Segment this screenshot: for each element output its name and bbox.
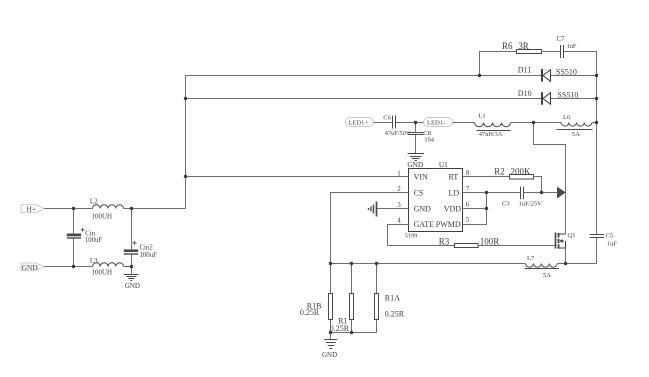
inductor L7 — [526, 264, 558, 268]
wire pin5 PWMD stub and tie — [463, 193, 487, 225]
node R6 D11 — [478, 74, 481, 77]
svg-text:1uF/25V: 1uF/25V — [519, 201, 543, 208]
wire C6 to LED1- — [396, 122, 424, 124]
capacitor C8 — [408, 133, 424, 135]
svg-text:1: 1 — [397, 170, 401, 178]
wire R2 to drop — [534, 177, 542, 193]
svg-text:8: 8 — [466, 169, 470, 177]
node C6 C8 — [414, 121, 417, 124]
wire L7 to right corner — [557, 263, 596, 265]
inductor L2 — [93, 205, 124, 209]
wire trunk left vertical — [185, 76, 187, 209]
wire C7 to right corner — [564, 52, 597, 76]
node trunk VIN — [184, 175, 187, 178]
wire L6 to right rail — [592, 122, 597, 124]
svg-text:R2: R2 — [494, 166, 505, 176]
wire L3 to Cin2 node — [124, 266, 132, 268]
svg-text:200K: 200K — [511, 166, 532, 176]
node right L6 — [595, 121, 598, 124]
wire D11 to right rail — [551, 75, 597, 77]
svg-text:GND: GND — [22, 263, 39, 272]
IC U1 box — [409, 169, 463, 232]
svg-text:0.25R: 0.25R — [300, 308, 320, 317]
svg-text:47uH/3A: 47uH/3A — [479, 131, 503, 138]
svg-text:L3: L3 — [90, 257, 98, 265]
svg-text:3R: 3R — [518, 41, 529, 51]
resistor R1A — [375, 294, 379, 320]
svg-text:1nF: 1nF — [567, 43, 577, 50]
svg-text:CS: CS — [414, 189, 424, 198]
svg-text:L6: L6 — [563, 114, 571, 121]
node trunk D10 — [184, 97, 187, 100]
ground below Cin2 — [124, 275, 139, 281]
wire D11 rail — [186, 75, 542, 77]
svg-text:PWMD: PWMD — [436, 220, 461, 229]
arrow connector to drain line — [557, 187, 565, 197]
svg-text:100UH: 100UH — [92, 212, 113, 220]
wire pin1 VIN row — [186, 176, 409, 178]
node bottom R1B — [329, 331, 332, 334]
svg-text:6: 6 — [466, 200, 470, 208]
node right D10 — [595, 97, 598, 100]
capacitor C7 — [561, 45, 564, 58]
svg-text:LED1-: LED1- — [427, 119, 445, 126]
capacitor C3 — [521, 187, 524, 200]
svg-text:100uF: 100uF — [140, 252, 158, 259]
svg-text:R6: R6 — [502, 41, 513, 51]
wire pin6 VDD stub — [463, 208, 487, 210]
svg-text:5: 5 — [466, 216, 470, 224]
svg-text:4: 4 — [397, 217, 401, 225]
ground below C8 — [408, 154, 425, 161]
svg-text:100R: 100R — [480, 236, 500, 246]
ground below R1B — [324, 340, 337, 349]
ground rotated at pin3 — [369, 202, 377, 217]
wire pin3 GND stub — [377, 208, 409, 210]
node rail R1 — [350, 262, 353, 265]
node LED1+ — [346, 118, 374, 127]
svg-text:D11: D11 — [518, 66, 531, 75]
node source rail — [564, 262, 567, 265]
svg-text:5199: 5199 — [405, 233, 418, 240]
svg-text:0.25R: 0.25R — [385, 310, 405, 319]
wire L2 to trunk — [124, 208, 186, 210]
capacitor Cin2 — [124, 241, 138, 254]
svg-text:C3: C3 — [502, 201, 510, 208]
svg-text:RT: RT — [449, 173, 459, 182]
wire C8 branch — [415, 123, 417, 154]
capacitor C5 — [590, 235, 605, 238]
svg-text:100UH: 100UH — [92, 269, 113, 277]
svg-text:0.25R: 0.25R — [330, 324, 350, 333]
node H+/Cin — [72, 207, 75, 210]
wire Cin branch — [73, 209, 75, 267]
resistor R6 — [517, 50, 542, 54]
svg-text:H+: H+ — [27, 205, 37, 214]
wire pin4 GATE drop — [388, 225, 455, 246]
wire R3 to gate — [478, 245, 556, 247]
wire R6 branch up — [480, 52, 517, 76]
wire GND row — [44, 266, 92, 268]
wire D10 to right rail — [551, 98, 597, 100]
node bottom R1 — [350, 331, 353, 334]
capacitor Cin — [67, 228, 85, 238]
resistor R2 — [510, 175, 534, 180]
wire pin7 LD row — [463, 192, 521, 194]
wire C3 to arrow node — [524, 192, 558, 194]
wire resistor bottoms — [331, 332, 377, 334]
node LED1- — [424, 118, 453, 127]
wire LED1- to L1 — [453, 122, 475, 124]
svg-text:R1A: R1A — [385, 293, 400, 302]
svg-text:U1: U1 — [439, 160, 448, 169]
inductor L3 — [93, 263, 124, 267]
wire R1B column — [330, 264, 332, 340]
node L2/Cin2 — [130, 207, 133, 210]
svg-text:D10: D10 — [518, 89, 532, 98]
node right D11 — [595, 74, 598, 77]
svg-text:2: 2 — [397, 185, 401, 193]
wire R1 column — [351, 264, 353, 333]
svg-text:VIN: VIN — [414, 173, 428, 182]
svg-text:5A: 5A — [543, 272, 551, 279]
node VDD tie — [485, 207, 488, 210]
port H+ — [21, 205, 44, 213]
svg-text:SS510: SS510 — [556, 67, 577, 76]
wire R1A column — [376, 264, 378, 333]
inductor L1 — [475, 123, 511, 127]
wire Cin2 branch — [131, 209, 133, 267]
node L1 drain — [532, 121, 535, 124]
svg-text:L1: L1 — [478, 112, 485, 119]
svg-text:100uF: 100uF — [85, 237, 103, 244]
wire right rail vertical — [596, 76, 598, 264]
svg-text:104: 104 — [424, 137, 435, 144]
wire D10 rail — [186, 98, 542, 100]
svg-text:GATE: GATE — [414, 220, 435, 229]
svg-text:LED1+: LED1+ — [348, 119, 368, 126]
wire R6 to C7 — [542, 51, 561, 53]
diode D11 — [542, 69, 551, 82]
node LD tie — [485, 191, 488, 194]
capacitor C6 — [393, 116, 396, 129]
svg-text:Cin2: Cin2 — [140, 244, 154, 251]
diode D10 — [542, 92, 551, 105]
wire Q1 source to rail — [565, 248, 567, 264]
wire bottom rail — [331, 263, 526, 265]
inductor L6 — [561, 123, 592, 127]
svg-text:VDD: VDD — [444, 204, 462, 213]
port GND — [21, 263, 44, 271]
wire ground stem Cin2 — [131, 267, 133, 275]
svg-text:1uF: 1uF — [607, 241, 618, 248]
svg-text:C6: C6 — [383, 114, 391, 121]
node rail R1A — [375, 262, 378, 265]
wire LED1+ to C6 — [374, 122, 393, 124]
transistor Q1 — [556, 233, 566, 249]
svg-text:3: 3 — [397, 201, 401, 209]
svg-text:GND: GND — [125, 282, 140, 290]
svg-text:47uF/50V: 47uF/50V — [385, 130, 411, 137]
svg-text:5A: 5A — [572, 131, 580, 138]
node GND/Cin — [72, 265, 75, 268]
wire H+ row — [44, 208, 92, 210]
resistor R1 — [350, 294, 354, 320]
node rail R1B — [329, 262, 332, 265]
svg-text:GND: GND — [322, 351, 337, 359]
resistor R3 — [455, 244, 479, 248]
wire pin8 RT row — [463, 176, 510, 178]
svg-text:Q1: Q1 — [568, 232, 576, 239]
svg-text:L7: L7 — [527, 255, 535, 262]
svg-text:7: 7 — [466, 185, 470, 193]
node R2 C3 — [540, 191, 543, 194]
wire drain branch from L1/L6 junction — [534, 123, 566, 235]
svg-text:R3: R3 — [439, 236, 450, 246]
wire pin2 CS row — [331, 193, 409, 264]
svg-text:L2: L2 — [90, 197, 98, 205]
svg-text:C7: C7 — [557, 36, 566, 43]
resistor R1B — [329, 294, 333, 320]
wire L1 to L6 — [511, 122, 561, 124]
svg-text:LD: LD — [449, 189, 460, 198]
svg-text:SS510: SS510 — [558, 90, 579, 99]
svg-text:GND: GND — [414, 204, 432, 213]
node L3/Cin2 — [130, 265, 133, 268]
svg-text:C5: C5 — [606, 233, 614, 240]
svg-text:GND: GND — [407, 160, 423, 169]
